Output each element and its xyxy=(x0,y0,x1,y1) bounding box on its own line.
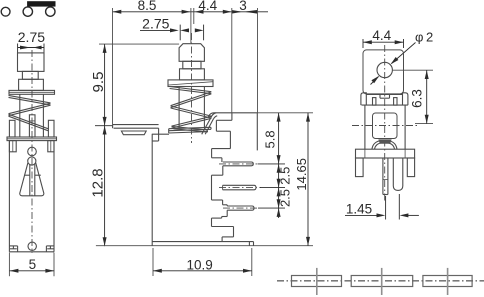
svg-text:8.5: 8.5 xyxy=(138,0,157,13)
dim 5.8 line xyxy=(277,113,281,164)
side view top dim extension left xyxy=(112,8,114,125)
side view ledge tray xyxy=(121,131,146,135)
front view left foot notch xyxy=(9,246,17,252)
pin B extension tick xyxy=(260,187,286,189)
dim 10.9 line xyxy=(153,269,252,273)
side view hook xyxy=(152,128,158,141)
svg-text:2.5: 2.5 xyxy=(278,189,293,207)
front view bell pointer xyxy=(20,163,44,196)
side view left dim arrows xyxy=(103,44,107,246)
side view top dim extension mid-right xyxy=(231,8,233,113)
terminal pin B centerline xyxy=(219,187,261,189)
rear view dome xyxy=(372,140,397,149)
side view bottom foot bar xyxy=(152,242,253,246)
svg-text:3: 3 xyxy=(239,0,247,13)
side view top dim line xyxy=(113,11,269,13)
side view right edge upper xyxy=(256,113,258,151)
side view ledge xyxy=(113,125,159,129)
terminal pin C centerline xyxy=(223,207,259,209)
front view dim 5 line+arrows xyxy=(10,269,55,273)
front view upper hole xyxy=(28,147,37,156)
svg-text:φ 2: φ 2 xyxy=(415,30,433,45)
rear view band tray notch xyxy=(380,95,390,99)
side view dim 9.5 text xyxy=(90,72,107,93)
side view staircase upper xyxy=(212,149,222,162)
rear view right ear xyxy=(403,93,408,105)
front view base plate xyxy=(7,137,57,141)
rear view left ear xyxy=(361,93,366,105)
dim 14.65 text xyxy=(294,158,309,191)
dim 2.5 upper text xyxy=(278,167,293,185)
switch symbol contact circle 3 xyxy=(46,7,55,16)
rear view right side leg xyxy=(407,158,414,177)
front view centerline xyxy=(31,50,33,253)
side view top edge xyxy=(209,113,258,117)
rear view dim 6.3 tick xyxy=(415,123,433,125)
rear view dim 4.4 extensions xyxy=(363,39,404,48)
dim 2.5 lower text xyxy=(278,189,293,207)
front view left corner block xyxy=(9,141,16,152)
front view dim 5 extension lines xyxy=(9,253,54,277)
svg-text:2.75: 2.75 xyxy=(142,16,169,32)
pads centerline xyxy=(277,280,484,282)
pin C extension tick xyxy=(258,207,285,209)
front view right post xyxy=(48,120,54,137)
side view top-edge extension right xyxy=(257,112,313,114)
rear view hole center extension xyxy=(393,69,434,71)
dim 2.5 upper line xyxy=(277,164,281,188)
side view ledge extension tick xyxy=(95,125,113,127)
rear view dim 6.3 line xyxy=(425,70,429,123)
side view slanted bracket xyxy=(202,113,218,135)
rear view dim 4.4 line xyxy=(363,40,404,44)
svg-text:2.75: 2.75 xyxy=(18,29,45,45)
side view top dim arrows xyxy=(113,10,258,14)
side view spring bottom plate xyxy=(169,127,211,133)
front view dim 5 text xyxy=(29,257,37,272)
front view right corner block xyxy=(48,141,54,152)
switch symbol actuator bar xyxy=(27,1,55,6)
front view plunger shaft xyxy=(20,94,44,137)
front view button base block xyxy=(19,79,44,90)
terminal pin A xyxy=(223,162,254,166)
dim 2.5 lower line xyxy=(277,188,281,218)
side view ground baseline xyxy=(96,245,313,247)
front view dim 2.75 line+arrows xyxy=(18,46,44,50)
pad 2 axis xyxy=(381,268,383,295)
side view plunger centerline xyxy=(191,33,193,143)
rear view crosshair xyxy=(352,125,418,127)
dim 5.8 text xyxy=(262,130,277,148)
side view button base block xyxy=(180,69,205,80)
rear view body sides xyxy=(365,105,405,149)
dim 10.9 extensions xyxy=(153,248,252,276)
rear view band post left xyxy=(373,98,376,106)
rear view dim 1.45 extensions xyxy=(386,194,400,220)
rear view dome block xyxy=(378,139,391,143)
terminal pin A centerline xyxy=(219,163,259,165)
front view spring xyxy=(9,95,51,130)
rear view band top edge xyxy=(366,94,402,96)
svg-text:10.9: 10.9 xyxy=(186,258,212,273)
dim 14.65 line xyxy=(306,113,310,246)
terminal pin B xyxy=(223,185,256,190)
front view left post xyxy=(9,120,15,137)
svg-text:5: 5 xyxy=(29,257,37,272)
side view staircase lower xyxy=(212,210,234,241)
side view dim 2.75 text xyxy=(142,16,169,32)
rear view dim 1.45 text xyxy=(346,202,372,217)
side view left dim line xyxy=(104,44,106,246)
rear view left side leg xyxy=(356,158,364,177)
front view dim 2.75 extension lines xyxy=(18,44,44,54)
svg-text:5.8: 5.8 xyxy=(262,130,277,148)
side view button neck xyxy=(183,61,201,69)
svg-text:14.65: 14.65 xyxy=(294,158,309,191)
rear view mounting tab xyxy=(363,50,404,94)
side view button cap xyxy=(179,44,204,62)
side view lower-left edge xyxy=(152,134,169,246)
side view top dim extension center xyxy=(191,8,194,43)
pad 2 xyxy=(351,276,413,287)
rear view dim phi2 text xyxy=(415,30,433,45)
front view top washer xyxy=(9,90,55,94)
side view edge between pins A-B xyxy=(212,166,223,200)
front view dim 2.75 text xyxy=(18,29,45,45)
pad 1 xyxy=(292,276,342,287)
front view button cap xyxy=(18,53,45,72)
switch symbol contact circle 2 xyxy=(23,7,32,16)
front view right foot notch xyxy=(46,246,54,252)
pad 1 axis xyxy=(316,268,318,295)
rear view pin 2 xyxy=(393,158,403,190)
side view plunger guide profile xyxy=(212,113,232,149)
rear view dim 4.4 text xyxy=(372,28,391,43)
front view bell pivot circle xyxy=(28,157,36,165)
side view plunger shaft xyxy=(179,87,204,129)
svg-text:6.3: 6.3 xyxy=(409,89,424,108)
rear view band post right xyxy=(394,98,397,106)
front view body shell xyxy=(9,141,54,252)
rear view inner square xyxy=(373,113,398,139)
side view dim 2.75 arrows xyxy=(180,28,203,32)
switch symbol contact circle 1 xyxy=(1,7,10,16)
rear view dim 1.45 line xyxy=(345,213,419,217)
front view inner stem xyxy=(29,115,35,137)
side view top dim extension right xyxy=(257,8,259,113)
front view button neck xyxy=(22,71,38,79)
pad 3 axis xyxy=(447,268,449,295)
rear view band bottom edge xyxy=(362,104,408,106)
side view edge below pin B xyxy=(212,200,228,206)
side view button-top extension line xyxy=(99,43,179,45)
rear view pin 1 xyxy=(383,158,388,195)
svg-text:12.8: 12.8 xyxy=(89,168,106,197)
svg-text:4.4: 4.4 xyxy=(372,28,391,43)
pin A extension tick xyxy=(258,163,286,165)
front view lower hole xyxy=(28,242,36,250)
side view spring xyxy=(170,87,212,132)
dim 10.9 text xyxy=(186,258,212,273)
side view dim 2.75 extensions xyxy=(180,25,203,41)
rear view bottom flange xyxy=(356,149,415,158)
rear view dim 6.3 text xyxy=(409,89,424,108)
pad 3 xyxy=(423,276,472,287)
side view dim 2.75 leader xyxy=(140,28,179,32)
rear view tab hole xyxy=(377,62,392,77)
side view dim 12.8 text xyxy=(89,168,106,197)
rear view phi2 leader xyxy=(371,43,416,85)
rear view centerline xyxy=(384,45,386,203)
terminal pin C xyxy=(227,206,254,210)
svg-text:1.45: 1.45 xyxy=(346,202,372,217)
side view top washer xyxy=(168,80,213,87)
side view top dim texts xyxy=(138,0,247,13)
